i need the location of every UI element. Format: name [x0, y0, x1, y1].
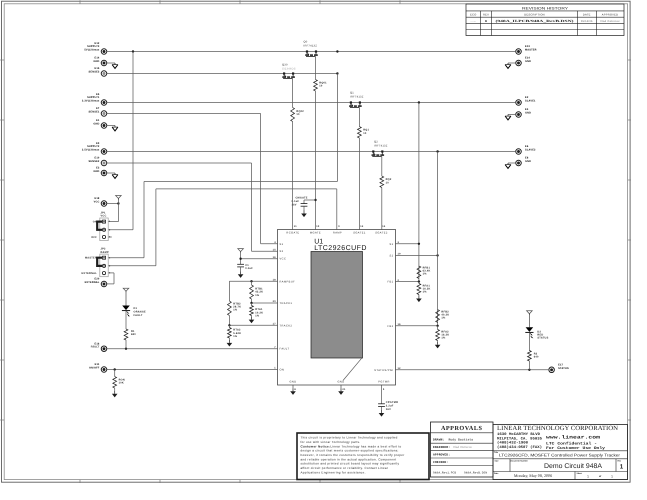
svg-text:16: 16	[398, 323, 402, 326]
wire SGATE1 vertical to pin13	[358, 138, 360, 230]
terminal E15 SENSE3	[89, 67, 107, 76]
svg-text:EXTERNAL: EXTERNAL	[82, 272, 98, 275]
svg-text:REV: REV	[483, 14, 489, 17]
svg-text:VCC: VCC	[94, 201, 100, 204]
svg-text:Vlad Ostrerov: Vlad Ostrerov	[600, 20, 620, 23]
resistor RON 10K	[113, 370, 125, 391]
svg-text:PGTMR: PGTMR	[378, 381, 389, 384]
terminal E8 GND	[505, 157, 531, 169]
svg-text:21: 21	[342, 388, 346, 391]
transistor Q2 IRF7413Z	[372, 141, 388, 158]
svg-text:TRACK1: TRACK1	[280, 302, 293, 305]
junction TRACK2 / RTA2	[228, 324, 230, 326]
ground at GND pin21	[340, 385, 342, 388]
svg-text:IRF7413Z: IRF7413Z	[350, 95, 364, 98]
svg-text:Rudy Bautista: Rudy Bautista	[449, 438, 474, 442]
svg-text:640: 640	[534, 356, 539, 359]
resistor RFB2 40.2K	[436, 310, 450, 323]
wire Q0 gate to RQ01	[315, 58, 317, 80]
svg-text:16: 16	[273, 256, 277, 259]
svg-text:10: 10	[386, 181, 390, 184]
transistor Q30 Si2346DS	[282, 64, 296, 80]
terminal E16 FAULT	[91, 342, 107, 351]
svg-text:1%: 1%	[233, 309, 238, 312]
wire Q30 gate to RQ02	[292, 80, 294, 108]
junction ON / RON	[114, 368, 116, 370]
svg-text:GND: GND	[525, 60, 531, 63]
op-amp U1 LTC2926CUFD	[278, 230, 396, 386]
svg-text:RAMP: RAMP	[101, 251, 109, 254]
resistor RFA2 16.2K	[436, 326, 450, 342]
ground below RFA2	[437, 342, 439, 345]
ground at GND pin8	[292, 385, 294, 388]
svg-text:1: 1	[620, 463, 624, 470]
svg-text:SLAVE1: SLAVE1	[525, 100, 536, 103]
junction FAULT / R1	[125, 348, 127, 350]
wire master ramp tap to JP2 pin1	[336, 74, 338, 182]
svg-text:GND: GND	[93, 60, 99, 63]
wire pin S2 right	[396, 254, 438, 256]
svg-text:GND: GND	[289, 381, 296, 384]
wire VCC symbol to chip VCC pin and C1	[238, 249, 244, 252]
svg-text:17: 17	[273, 323, 277, 326]
junction RAMPBUF / RTB1	[250, 280, 252, 282]
terminal E13 MASTER	[516, 45, 537, 54]
svg-text:20: 20	[273, 300, 277, 303]
svg-text:DATE: DATE	[583, 14, 591, 17]
wire FB1 pin2	[396, 281, 419, 283]
svg-text:FAULT: FAULT	[91, 346, 100, 349]
svg-text:14: 14	[382, 225, 386, 228]
wire VCC node to JP1 pin1	[117, 200, 119, 222]
wire S2 sense vertical SUPPLY2 to FB2	[437, 152, 439, 326]
terminal E9 SUPPLY2	[82, 142, 107, 154]
junction E18/VCC node	[117, 202, 119, 204]
svg-text:(408)432-1900: (408)432-1900	[497, 441, 528, 446]
junction STATUS / R2	[528, 369, 530, 371]
LED D1 ORANGE FAULT	[122, 306, 146, 318]
svg-text:CHECKED:: CHECKED:	[433, 461, 448, 464]
terminal E14 GND (right)	[505, 57, 531, 69]
resistor RTA1 10.2K	[250, 303, 264, 317]
ground below RON	[114, 391, 116, 394]
svg-text:GND: GND	[93, 123, 99, 126]
svg-text:S2: S2	[389, 254, 393, 257]
wire JP2 pin2 to RAMP pin9	[108, 265, 156, 267]
svg-text:GND: GND	[93, 170, 99, 173]
svg-text:LTC Confidential -: LTC Confidential -	[546, 442, 597, 447]
svg-text:Q0: Q0	[304, 41, 308, 44]
resistor RTB2 28.7K	[228, 281, 242, 325]
svg-text:(948A_II.PCB/948A_RevB.DSN): (948A_II.PCB/948A_RevB.DSN)	[496, 19, 574, 23]
svg-text:2.5V@3Amax: 2.5V@3Amax	[82, 149, 100, 152]
svg-text:FAULT: FAULT	[280, 348, 290, 351]
svg-text:SENSE2: SENSE2	[89, 160, 100, 163]
svg-text:B: B	[485, 19, 487, 23]
wire FB2 pin16	[396, 325, 438, 327]
svg-text:1%: 1%	[441, 317, 446, 320]
svg-text:12: 12	[398, 367, 402, 370]
resistor RFB1 63.4K	[417, 266, 431, 279]
svg-text:SGATE2: SGATE2	[375, 232, 388, 235]
ground below CPGTMR	[381, 410, 383, 413]
junction SUPPLY2 / S2 sense	[436, 150, 438, 152]
svg-text:IRF7413Z: IRF7413Z	[374, 144, 388, 147]
transistor Q1 IRF7413Z	[349, 92, 364, 109]
junction TRACK1 / RTA1	[250, 302, 252, 304]
svg-text:MGATE: MGATE	[310, 232, 321, 235]
resistor RTB1 42.2K	[250, 281, 264, 303]
svg-text:GND: GND	[525, 112, 531, 115]
resistor RQ1 10	[358, 127, 370, 139]
svg-text:Document Number: Document Number	[510, 459, 528, 462]
ground below RTA2	[228, 340, 230, 343]
svg-text:ECO: ECO	[470, 14, 476, 17]
svg-text:GND: GND	[525, 160, 531, 163]
svg-text:Q1: Q1	[350, 92, 354, 95]
svg-text:10K: 10K	[119, 382, 124, 385]
wire SUPPLY1 rail E5 to E2	[107, 102, 516, 104]
svg-text:LTC2926CUFD: LTC2926CUFD	[314, 245, 367, 252]
wire SENSE1 E7 to pin S1	[107, 113, 261, 115]
svg-text:948A_Rev1.PCB: 948A_Rev1.PCB	[433, 472, 456, 475]
svg-text:1%: 1%	[441, 337, 446, 340]
svg-text:13: 13	[360, 225, 364, 228]
svg-text:680: 680	[131, 333, 136, 336]
svg-text:STATUS: STATUS	[558, 367, 569, 370]
svg-text:15: 15	[273, 248, 277, 251]
junction SUPPLY3 / JP1 feed	[132, 50, 134, 52]
wire Q1 gate to RQ1	[358, 109, 360, 127]
svg-text:1%: 1%	[255, 294, 260, 297]
junction FB2	[436, 325, 438, 327]
vcc symbol above D1	[123, 288, 129, 291]
svg-text:OFF: OFF	[91, 236, 97, 239]
svg-text:3.3V@3Amax: 3.3V@3Amax	[82, 100, 100, 103]
svg-text:1%: 1%	[423, 273, 428, 276]
svg-text:10: 10	[363, 132, 367, 135]
svg-text:TRACK2: TRACK2	[280, 324, 293, 327]
wire SUPPLY3 rail E12 to E13	[107, 51, 516, 53]
wire Q2 gate to RQ2	[381, 158, 383, 176]
svg-text:RAMP: RAMP	[333, 232, 342, 235]
svg-text:10: 10	[319, 85, 323, 88]
svg-text:GND: GND	[337, 381, 344, 384]
svg-text:IRF7413Z: IRF7413Z	[304, 44, 318, 47]
svg-text:RCGATE: RCGATE	[286, 232, 299, 235]
svg-text:DRAWN:: DRAWN:	[433, 439, 445, 442]
junction SENSE3 / ramp tap vertical	[336, 72, 338, 74]
wire pin S1 right	[396, 243, 419, 245]
svg-text:STATUS: STATUS	[537, 337, 548, 340]
junction S1/vertical	[418, 243, 420, 245]
wire STATUS/PGI pin12 to E17	[396, 369, 550, 371]
svg-text:10: 10	[296, 113, 300, 116]
svg-text:Applications Engineering for a: Applications Engineering for assistance.	[301, 470, 366, 474]
terminal E10 SENSE2	[89, 157, 107, 166]
terminal E11 ON/OFF	[89, 363, 107, 372]
capacitor CMGATE 0.1uF 16V	[292, 196, 316, 211]
svg-text:ON: ON	[280, 369, 285, 372]
wire SENSE2 E10 to pin S2	[107, 162, 252, 164]
svg-text:1%: 1%	[423, 291, 428, 294]
svg-text:SGATE1: SGATE1	[353, 232, 366, 235]
wire SENSE3 E15 to ramp tap	[107, 73, 338, 75]
svg-text:Q30: Q30	[282, 64, 288, 67]
svg-text:Monday, May 08, 2006: Monday, May 08, 2006	[514, 473, 552, 478]
wire FAULT E16 to pin7	[107, 348, 278, 350]
junction S2/vertical	[436, 254, 438, 256]
terminal E20 EXTERNAL	[85, 278, 107, 287]
wire VCC feed to JP1 pin2	[132, 52, 134, 230]
terminal E7 SENSE1	[89, 107, 107, 116]
svg-text:LINEAR TECHNOLOGY CORPORATION: LINEAR TECHNOLOGY CORPORATION	[497, 425, 618, 432]
transistor Q0 IRF7413Z	[304, 41, 318, 58]
wire PGTMR pin5 to CPGTMR	[381, 385, 383, 404]
svg-text:19: 19	[398, 253, 402, 256]
svg-text:1: 1	[587, 474, 589, 478]
capacitor CPGTMR 2.2uF 16V	[378, 401, 398, 411]
svg-text:948A_RevB.DSN: 948A_RevB.DSN	[464, 472, 487, 475]
ground below RTA1	[251, 317, 253, 320]
terminal E18 VCC	[94, 197, 107, 206]
resistor RQ02 10	[291, 108, 305, 122]
terminal E4 GND	[505, 108, 531, 120]
svg-text:MASTER: MASTER	[525, 49, 537, 52]
terminal E14 GND	[93, 57, 118, 69]
wire RAMPBUF pin18 to divider	[229, 280, 277, 282]
capacitor C1 0.1uF	[237, 264, 253, 270]
junction MGATE / CMGATE	[314, 199, 316, 201]
svg-text:-----: -----	[471, 20, 477, 23]
svg-text:0.1uF: 0.1uF	[245, 267, 253, 270]
terminal E3 GND	[93, 167, 118, 179]
svg-text:1%: 1%	[233, 335, 238, 338]
svg-text:S1: S1	[280, 243, 284, 246]
wire JP1 pin3 stub	[108, 236, 112, 238]
svg-text:Sheet: Sheet	[577, 472, 583, 475]
svg-text:MILPITAS, CA. 95035: MILPITAS, CA. 95035	[497, 436, 543, 441]
terminal E2 SLAVE1	[516, 96, 536, 105]
svg-text:Demo Circuit 948A: Demo Circuit 948A	[544, 463, 602, 470]
svg-text:APPROVALS: APPROVALS	[441, 425, 483, 432]
svg-text:FB1: FB1	[387, 281, 393, 284]
wire JP2 pin3 to E20	[108, 272, 114, 274]
svg-text:APPROVED:: APPROVED:	[433, 454, 450, 457]
ground below CMGATE	[303, 211, 305, 214]
svg-text:Vlad Ostrerov: Vlad Ostrerov	[453, 445, 472, 449]
wire ON E11 to pin1	[107, 369, 278, 371]
ground below RFA1	[418, 296, 420, 299]
svg-text:MASTER: MASTER	[85, 257, 97, 260]
svg-text:SENSE1: SENSE1	[89, 111, 100, 114]
LED D2 RED STATUS	[525, 327, 548, 339]
svg-text:Si2346DS: Si2346DS	[282, 67, 296, 70]
wire S1 sense vertical SUPPLY1 to FB1	[418, 103, 420, 282]
svg-text:1: 1	[611, 474, 613, 478]
svg-text:1%: 1%	[255, 314, 260, 317]
wire E18 to VCC symbol node	[107, 203, 119, 205]
svg-text:REVISION HISTORY: REVISION HISTORY	[522, 6, 569, 10]
svg-text:10: 10	[316, 225, 320, 228]
resistor R2 640	[528, 333, 539, 370]
svg-text:RAMPBUF: RAMPBUF	[280, 280, 296, 283]
svg-text:of: of	[599, 475, 601, 478]
svg-text:DESCRIPTION: DESCRIPTION	[524, 14, 544, 17]
wire TRACK1 pin20	[252, 302, 278, 304]
connector JP1 (VCC ON/OFF)	[91, 211, 111, 240]
resistor RTA2 5.62K	[228, 325, 242, 340]
terminal E6 SLAVE2	[516, 145, 536, 154]
svg-text:S2: S2	[280, 250, 284, 253]
svg-text:S1: S1	[389, 243, 393, 246]
junction FB1	[418, 280, 420, 282]
svg-text:11: 11	[294, 225, 297, 228]
resistor R1 680	[124, 311, 136, 349]
svg-text:APPROVED: APPROVED	[602, 14, 618, 17]
svg-text:VCC: VCC	[101, 215, 107, 218]
connector JP2 (RAMP select)	[82, 247, 111, 276]
svg-text:VCC: VCC	[280, 258, 287, 261]
wire MGATE vertical to pin10	[315, 91, 317, 230]
svg-text:1630 McCARTHY BLVD: 1630 McCARTHY BLVD	[497, 432, 541, 437]
junction SUPPLY3 / master ramp tap	[336, 50, 338, 52]
wire SGATE2 vertical to pin14	[381, 188, 383, 230]
svg-text:ON/OFF: ON/OFF	[89, 367, 100, 370]
svg-text:ENGINEER:: ENGINEER:	[433, 446, 450, 449]
terminal E17 STATUS	[549, 364, 569, 373]
svg-text:5V@2Amax: 5V@2Amax	[84, 49, 100, 52]
pin numbers U1	[273, 225, 401, 391]
resistor RFA1 16.2K	[417, 282, 431, 296]
wire TRACK2 pin17	[229, 324, 277, 326]
svg-text:SENSE3: SENSE3	[89, 71, 100, 74]
svg-text:FB2: FB2	[387, 325, 393, 328]
svg-text:EXTERNAL: EXTERNAL	[85, 281, 100, 284]
junction VCC pin node	[239, 258, 241, 260]
svg-text:SLAVE2: SLAVE2	[525, 149, 536, 152]
svg-text:STATUS/PGI: STATUS/PGI	[374, 369, 393, 372]
vcc symbol above D2	[527, 311, 533, 314]
vcc symbol above E18	[116, 196, 122, 199]
wire SUPPLY2 rail E9 to E6	[107, 151, 516, 153]
svg-text:05/14/05: 05/14/05	[581, 20, 593, 23]
terminal E12 SUPPLY3	[84, 42, 106, 54]
wire RCGATE vertical to pin11	[292, 122, 294, 230]
resistor RQ2 10	[380, 176, 392, 188]
wire exposed pad to GND pin21	[343, 358, 362, 381]
svg-text:www.linear.com: www.linear.com	[546, 434, 600, 440]
svg-text:LTC2926CFD, MOSFET Controlled: LTC2926CFD, MOSFET Controlled Power Supp…	[499, 453, 621, 458]
terminal E1 GND	[93, 119, 118, 131]
resistor RQ01 10	[314, 80, 328, 92]
svg-text:ON: ON	[93, 221, 97, 224]
ground below C1	[240, 267, 242, 271]
svg-text:(408)434-0507 (FAX): (408)434-0507 (FAX)	[497, 445, 542, 450]
svg-text:16V: 16V	[386, 408, 391, 411]
svg-text:For Customer Use Only: For Customer Use Only	[546, 446, 606, 451]
junction SUPPLY1 / S1 sense	[418, 101, 420, 103]
svg-text:18: 18	[273, 279, 277, 282]
terminal E5 SUPPLY1	[82, 93, 107, 105]
svg-text:FAULT: FAULT	[134, 314, 143, 317]
svg-text:Q2: Q2	[374, 141, 378, 144]
